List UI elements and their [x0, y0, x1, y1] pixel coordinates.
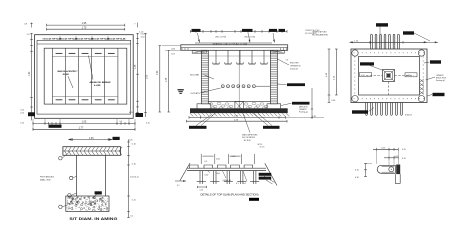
leader circle 3	[68, 194, 71, 197]
svg-text:1.0: 1.0	[286, 60, 289, 62]
support walls below	[199, 171, 201, 184]
svg-text:1.77: 1.77	[79, 126, 84, 129]
svg-text:1.05: 1.05	[82, 121, 87, 124]
svg-text:0.57: 0.57	[171, 54, 175, 56]
svg-text:0.15: 0.15	[20, 112, 24, 114]
top cover slab	[181, 45, 288, 51]
view: top slab reinforcement plan	[312, 23, 446, 116]
svg-text:0.15: 0.15	[129, 112, 133, 114]
right wall footing	[267, 104, 281, 109]
wall band dot texture	[353, 51, 356, 54]
svg-text:1.05: 1.05	[89, 138, 94, 140]
plum concrete stones right	[244, 103, 248, 105]
wall edge dark band	[396, 165, 400, 175]
slab band line bottom	[187, 170, 266, 172]
svg-text:m m/s: m m/s	[260, 147, 265, 149]
center line horizontal right	[395, 75, 415, 77]
right chair bar box	[405, 73, 417, 77]
svg-text:JK BM: JK BM	[63, 74, 70, 76]
svg-text:1.35: 1.35	[135, 64, 137, 69]
svg-text:0.10: 0.10	[200, 189, 204, 191]
svg-text:1.65 (4.2): 1.65 (4.2)	[130, 177, 139, 179]
svg-text:PROP ANGLE B: PROP ANGLE B	[40, 175, 55, 178]
center line horizontal left	[366, 75, 383, 77]
eave drip ticks right	[280, 48, 282, 51]
svg-text:1.35: 1.35	[166, 77, 168, 82]
top right corner ticks	[137, 23, 139, 28]
svg-text:0.1: 0.1	[205, 161, 208, 163]
ground level marker	[178, 89, 184, 90]
section left dim line near	[168, 50, 170, 112]
svg-text:0.10: 0.10	[141, 34, 145, 36]
right cover slab label	[259, 173, 272, 176]
svg-text:7.40: 7.40	[157, 70, 159, 75]
extension lines up	[375, 148, 377, 164]
wall right line	[104, 155, 106, 196]
bottom rebar hook loops	[365, 103, 367, 115]
svg-text:0.1: 0.1	[236, 183, 239, 185]
left section cut marker	[28, 112, 35, 116]
center sump pit	[235, 101, 244, 110]
view: tank top plan	[20, 22, 149, 130]
slab seat dashes bottom	[56, 99, 63, 101]
svg-text:G/L: G/L	[85, 201, 88, 203]
svg-text:SLK LINE: SLK LINE	[190, 75, 199, 77]
left chair bar box	[360, 73, 372, 77]
tank floor line	[208, 100, 270, 102]
leader circle 1	[59, 157, 62, 160]
left break line	[180, 163, 190, 181]
interior soffit line	[208, 55, 270, 57]
tank inner rectangle	[44, 48, 127, 104]
corner detail top dim 2	[384, 157, 399, 159]
detail top dimension	[72, 139, 108, 141]
svg-text:SHUTTER: SHUTTER	[290, 63, 299, 65]
right wall label	[287, 83, 305, 86]
svg-text:0.10: 0.10	[205, 174, 209, 176]
plan wall inner offset rectangle	[37, 40, 131, 114]
svg-text:(NO CUTG): (NO CUTG)	[216, 37, 227, 39]
leader circle 4	[59, 205, 62, 208]
plum concrete stones left	[209, 103, 213, 105]
tank slab division lines	[51, 48, 53, 104]
slab plan outer rectangle	[351, 49, 427, 103]
svg-text:DETAILS OF TOP SLAB (PLAN AND: DETAILS OF TOP SLAB (PLAN AND SECTION)	[201, 192, 259, 196]
left wall footing	[197, 104, 211, 109]
svg-text:BY B.M.: BY B.M.	[244, 140, 251, 142]
slab seat dashes top	[56, 52, 63, 54]
view: cover slab corner detail	[355, 148, 406, 184]
svg-text:3.10: 3.10	[20, 122, 24, 124]
view: wall and footing detail	[40, 137, 139, 221]
bottom right label blob	[433, 93, 445, 96]
section right dim line	[311, 88, 313, 119]
plan bottom dimension line 2	[33, 128, 135, 130]
plan right dimension line 1	[137, 33, 139, 117]
svg-text:0.60x0.45 TOP SLAB: 0.60x0.45 TOP SLAB	[107, 38, 126, 41]
slab plan left dim far	[328, 49, 330, 103]
right wall cross hatch	[420, 79, 424, 82]
outlet line to wall	[256, 85, 270, 87]
slab chevron hatch lower	[65, 151, 68, 155]
eave tie lines	[162, 45, 181, 47]
dim extension arrow right	[427, 41, 438, 43]
hanging tee pipes	[215, 50, 217, 64]
top label blob 2	[403, 31, 414, 34]
section bottom dim line 1	[189, 116, 286, 118]
top label blob 1	[376, 23, 388, 26]
plan outer wall rectangle	[35, 35, 134, 119]
bottom left label	[352, 110, 368, 113]
left corbel box	[192, 50, 206, 53]
view5 leader diagonals	[223, 171, 227, 178]
section top dimension line	[190, 30, 287, 32]
plan bottom dimension line 1	[33, 122, 135, 124]
corner circle top-right	[418, 50, 424, 56]
view: top slab plan and section detail	[175, 154, 277, 201]
svg-text:S/T DIAM. IN AMING: S/T DIAM. IN AMING	[69, 217, 118, 221]
nfs text blob	[113, 137, 120, 140]
svg-text:0.60x0.45: 0.60x0.45	[290, 69, 298, 71]
leader from rebar text	[89, 56, 94, 80]
footing stipple box	[66, 196, 109, 211]
wall left line	[76, 155, 78, 196]
corner circle top-left	[352, 50, 358, 56]
nfs label above footing	[95, 191, 102, 194]
slot end circle	[389, 167, 394, 172]
svg-text:W P/L: W P/L	[258, 144, 263, 146]
center partition line	[238, 50, 240, 101]
right footing label	[292, 102, 310, 105]
outlet pipe circles	[221, 85, 224, 88]
corner circle bottom-right	[418, 96, 424, 102]
svg-text:0.10: 0.10	[141, 37, 145, 39]
view: tank cross section	[157, 29, 324, 149]
scale bar	[249, 198, 259, 201]
svg-text:0.30: 0.30	[332, 100, 336, 102]
section left dim line far	[159, 46, 161, 112]
svg-text:DBLE IMPROVED: DBLE IMPROVED	[242, 134, 258, 136]
svg-text:0.15: 0.15	[402, 149, 406, 151]
top rebar hook loops	[370, 35, 372, 49]
left floor label	[189, 126, 207, 129]
upper dim ticks	[200, 154, 202, 164]
svg-text:A LINE: A LINE	[94, 84, 101, 87]
right break line	[265, 163, 277, 185]
wearing coat line	[195, 42, 272, 44]
svg-text:S/L: S/L	[90, 205, 93, 207]
svg-text:OPENING W: OPENING W	[290, 66, 301, 68]
detail right dimension line	[128, 140, 130, 218]
corner circle bottom-left	[352, 96, 358, 102]
cover slab bumps	[190, 165, 199, 168]
leader arrows to slab	[198, 33, 200, 43]
leader from main slab text	[68, 76, 73, 88]
svg-text:0.18: 0.18	[312, 116, 316, 118]
plan right dimension line 2	[145, 33, 147, 117]
svg-text:(NO CUTG): (NO CUTG)	[245, 37, 256, 39]
plan top dimension line 1	[47, 24, 125, 26]
svg-text:(WALL) W.B: (WALL) W.B	[40, 179, 51, 182]
slab chevron hatch upper	[65, 147, 68, 151]
plan left dimension line	[31, 33, 33, 120]
slab plan inner rectangle	[359, 57, 420, 96]
left bracket dims	[365, 164, 367, 177]
svg-text:0.15: 0.15	[20, 109, 24, 111]
right label blob	[430, 60, 441, 63]
plan bottom extension lines	[32, 119, 34, 131]
svg-text:0.05: 0.05	[395, 156, 399, 158]
svg-text:0.15: 0.15	[402, 158, 406, 160]
slab plan left dim near	[335, 49, 337, 95]
eave drip ticks left	[181, 48, 183, 51]
svg-text:0.15: 0.15	[382, 148, 386, 150]
left lower bracket	[198, 186, 207, 188]
svg-text:0.3: 0.3	[120, 121, 123, 123]
plan top dimension line 2	[47, 28, 125, 30]
svg-text:0.10: 0.10	[355, 177, 359, 179]
dim extension right	[286, 116, 325, 118]
blur filter definition	[0, 0, 1, 1]
cover slab mid line	[181, 47, 288, 49]
svg-text:NN UNG ANBOHIN: NN UNG ANBOHIN	[312, 34, 328, 37]
wall edge lines below	[394, 174, 396, 183]
left arrow line	[175, 180, 186, 182]
center line vertical lower	[388, 82, 390, 96]
slab plan top dimension	[350, 41, 428, 43]
svg-text:1.40: 1.40	[29, 71, 31, 76]
svg-text:1.75: 1.75	[82, 27, 87, 30]
base slab hatch below	[190, 113, 193, 116]
svg-text:SLK OF BRICK: SLK OF BRICK	[242, 137, 256, 139]
svg-text:0.15: 0.15	[355, 169, 359, 171]
right wall masonry	[270, 50, 277, 104]
corner detail top dim 1	[373, 148, 399, 150]
svg-text:0.1: 0.1	[177, 185, 180, 187]
inner dashed rectangle top line	[52, 55, 118, 57]
plan wall line	[37, 43, 131, 45]
bottom jamb text blob	[49, 125, 62, 128]
leader circle 2	[70, 176, 73, 179]
right floor label	[263, 126, 280, 129]
svg-text:0.1: 0.1	[244, 183, 247, 185]
svg-text:Footing+g1: Footing+g1	[436, 79, 445, 82]
section bottom dim line 2	[187, 120, 288, 122]
svg-text:1.60: 1.60	[147, 74, 149, 79]
slab hatched band	[63, 147, 121, 156]
right section cut marker	[136, 113, 144, 117]
base slab dark band	[190, 108, 288, 113]
center opening square	[383, 70, 395, 82]
stadium slot shape	[377, 165, 395, 173]
svg-text:0.60/0.9: 0.60/0.9	[405, 115, 412, 117]
svg-text:3.10: 3.10	[146, 122, 150, 124]
top dimension text blobs	[192, 29, 201, 32]
svg-text:OUTLETS: OUTLETS	[191, 93, 201, 95]
svg-text:MAIN SL ACENTER 7: MAIN SL ACENTER 7	[58, 70, 79, 73]
opening label blob	[360, 62, 374, 65]
svg-text:CEMENT A PCBS: CEMENT A PCBS	[312, 31, 327, 34]
svg-text:1.95: 1.95	[82, 22, 87, 25]
svg-text:0.60x0.10: 0.60x0.10	[223, 180, 231, 182]
inner dashed rectangle bottom line	[52, 95, 118, 97]
left wall masonry	[201, 50, 208, 104]
svg-text:1.0-0: 1.0-0	[216, 173, 220, 175]
slab band line top	[187, 167, 266, 169]
right corbel box	[271, 50, 285, 53]
svg-text:Footing+g): Footing+g)	[299, 110, 308, 113]
upper dim segments	[203, 155, 214, 157]
svg-text:ABHNA CBL BERBAR: ABHNA CBL BERBAR	[90, 81, 111, 84]
